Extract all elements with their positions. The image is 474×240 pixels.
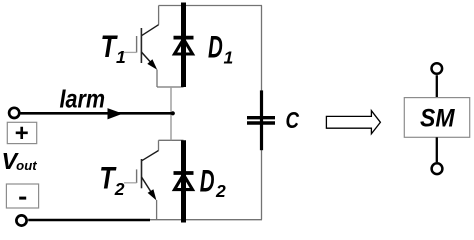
svg-text:2: 2 bbox=[114, 179, 125, 199]
wire SM top bbox=[436, 75, 438, 97]
svg-text:1: 1 bbox=[116, 47, 126, 67]
label T2 bbox=[99, 161, 125, 199]
wire bottom rail thick bbox=[28, 219, 150, 222]
diode D2 bbox=[174, 140, 194, 222]
wire SM bottom bbox=[436, 137, 438, 162]
transistor T2 bbox=[124, 140, 159, 219]
arrow Iarm arrowhead bbox=[108, 109, 121, 119]
svg-text:D: D bbox=[208, 30, 223, 65]
diode D1 bbox=[174, 3, 194, 88]
wire capacitor branch upper bbox=[261, 6, 263, 91]
label T1 bbox=[101, 29, 126, 67]
svg-text:Iarm: Iarm bbox=[60, 83, 106, 113]
terminal SM bottom circle bbox=[432, 163, 443, 174]
wire T1 emitter node line bbox=[157, 86, 184, 88]
transistor T1 bbox=[124, 6, 159, 88]
label minus box bbox=[6, 184, 38, 208]
terminal bottom-left circle bbox=[16, 215, 26, 225]
svg-text:SM: SM bbox=[420, 105, 456, 133]
node phase junction dot bbox=[171, 111, 175, 115]
box SM bbox=[404, 98, 469, 138]
svg-text:1: 1 bbox=[224, 48, 234, 68]
label D2 bbox=[200, 163, 226, 201]
terminal SM top circle bbox=[432, 63, 443, 74]
label plus box bbox=[7, 120, 36, 147]
terminal top-left circle bbox=[9, 108, 19, 118]
wire T2 collector node line bbox=[159, 139, 184, 141]
label Vout bbox=[2, 148, 38, 174]
svg-text:+: + bbox=[14, 120, 28, 147]
wire Iarm bbox=[21, 112, 173, 115]
wire bottom rail thin bbox=[150, 219, 262, 221]
capacitor C bbox=[247, 90, 275, 150]
svg-text:D: D bbox=[200, 163, 215, 198]
wire phase node vertical bbox=[170, 87, 172, 140]
svg-text:2: 2 bbox=[215, 181, 226, 201]
wire capacitor branch lower bbox=[261, 150, 263, 220]
svg-text:out: out bbox=[16, 158, 37, 173]
wire top rail bbox=[159, 5, 262, 7]
arrow block arrow bbox=[326, 111, 380, 134]
label D1 bbox=[208, 30, 233, 68]
svg-text:C: C bbox=[286, 107, 300, 133]
